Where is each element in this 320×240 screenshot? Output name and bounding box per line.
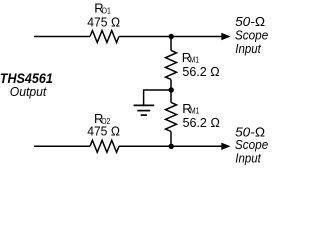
- wire bottom-right segment: [119, 145, 223, 147]
- svg-text:56.2 Ω: 56.2 Ω: [182, 64, 219, 79]
- label 50 ohm scope input top: [235, 14, 268, 56]
- label RM1 lower: [182, 101, 199, 116]
- node top junction: [169, 34, 174, 39]
- wire top-right segment: [119, 36, 223, 38]
- svg-text:Input: Input: [235, 41, 262, 56]
- label RM1 upper: [182, 50, 199, 65]
- svg-text:Input: Input: [235, 150, 262, 165]
- resistor RO1: [90, 31, 119, 43]
- label 50 ohm scope input bottom: [235, 124, 268, 165]
- resistor RM1 lower: [166, 102, 177, 131]
- resistor RM1 upper: [166, 50, 177, 79]
- resistor RO2: [90, 140, 119, 152]
- svg-text:56.2 Ω: 56.2 Ω: [183, 115, 220, 130]
- arrow to bottom scope input: [221, 143, 230, 150]
- svg-text:475 Ω: 475 Ω: [87, 124, 120, 139]
- arrow to top scope input: [221, 33, 230, 40]
- svg-text:Output: Output: [10, 84, 47, 99]
- wire RM1 upper to mid node: [170, 80, 172, 91]
- ground: [134, 105, 155, 115]
- wire mid node to RM1 lower: [170, 90, 172, 102]
- wire mid node to ground stub: [144, 90, 171, 105]
- node mid junction: [169, 87, 174, 92]
- label RO1: [94, 0, 111, 15]
- label RO2: [94, 111, 110, 126]
- node bottom junction: [169, 144, 174, 149]
- svg-text:475 Ω: 475 Ω: [87, 15, 120, 30]
- wire top-left segment: [34, 36, 90, 38]
- wire RM1 lower to bottom node: [170, 132, 172, 147]
- wire bottom-left segment: [34, 145, 90, 147]
- wire vertical from top node to RM1: [170, 37, 172, 51]
